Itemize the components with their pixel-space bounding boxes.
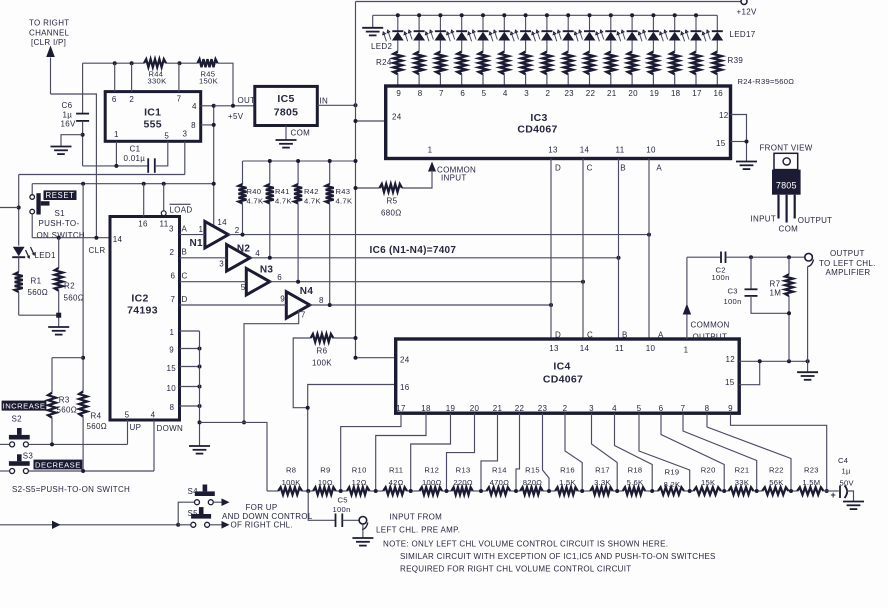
wire ladder seg before R20	[684, 490, 694, 492]
svg-text:7: 7	[681, 404, 686, 413]
wire ladder seg before R22	[754, 490, 763, 492]
resistor R5	[380, 184, 403, 192]
junction	[57, 236, 61, 240]
wire IC2 pin4 stub	[153, 420, 155, 471]
resistor R6	[311, 334, 334, 342]
wire IC2 pin10 stub	[180, 386, 200, 388]
resistor R43	[326, 184, 334, 204]
svg-text:CD4067: CD4067	[517, 124, 557, 136]
wire R3 bottom	[51, 418, 53, 445]
svg-text:19: 19	[446, 404, 456, 413]
junction	[438, 13, 442, 17]
wire IC2 pin8 stub	[180, 405, 200, 407]
junction	[502, 13, 506, 17]
wire IC4 pin5 route	[639, 413, 690, 491]
junction	[688, 489, 692, 493]
wire +12V rail	[356, 1, 741, 3]
LED LED7	[503, 15, 505, 31]
wire osc between R44 R45	[166, 62, 198, 64]
svg-text:IN: IN	[320, 97, 329, 106]
svg-text:N2: N2	[237, 243, 251, 254]
svg-text:SIMILAR CIRCUIT WITH EXCEPTION: SIMILAR CIRCUIT WITH EXCEPTION OF IC1,IC…	[400, 552, 716, 561]
wire S1 bottom riser	[31, 214, 33, 238]
wire pin6 stub	[114, 63, 116, 91]
svg-text:A: A	[656, 163, 662, 172]
svg-text:B: B	[622, 331, 628, 340]
junction	[481, 13, 485, 17]
resistor R36	[649, 52, 658, 75]
svg-text:N4: N4	[300, 286, 314, 297]
svg-text:R7: R7	[770, 280, 781, 289]
svg-text:LEFT CHL. PRE AMP.: LEFT CHL. PRE AMP.	[376, 525, 460, 534]
svg-text:R43: R43	[336, 187, 351, 196]
resistor R39	[713, 52, 722, 75]
wire net D	[180, 304, 287, 306]
LED LED8	[525, 15, 527, 31]
svg-text:ON SWITCH: ON SWITCH	[37, 231, 85, 240]
svg-text:6: 6	[659, 404, 664, 413]
svg-text:OUT: OUT	[238, 96, 256, 105]
svg-text:S1: S1	[55, 209, 66, 218]
svg-text:100n: 100n	[712, 273, 730, 282]
svg-text:R3: R3	[59, 396, 70, 405]
svg-text:20: 20	[470, 404, 480, 413]
svg-text:1: 1	[684, 345, 689, 354]
wire bottom rail	[0, 524, 178, 526]
svg-text:INCREASE: INCREASE	[3, 401, 46, 410]
LED LED4	[439, 15, 441, 31]
svg-text:D: D	[555, 163, 561, 172]
svg-text:S2-S5=PUSH-TO-ON SWITCH: S2-S5=PUSH-TO-ON SWITCH	[12, 485, 130, 494]
svg-text:+12V: +12V	[737, 7, 757, 16]
wire R4 bottom	[82, 417, 84, 472]
svg-text:470Ω: 470Ω	[490, 478, 510, 487]
svg-text:11: 11	[160, 219, 169, 228]
wire IC4 pin8 route	[707, 413, 791, 491]
svg-text:18: 18	[421, 404, 431, 413]
svg-text:33K: 33K	[735, 478, 749, 487]
wire N1 out	[228, 234, 649, 236]
wire to CLR riser	[51, 94, 97, 238]
svg-text:C: C	[587, 163, 593, 172]
wire R3 top	[51, 358, 53, 393]
IC3 CD4067 box	[386, 86, 731, 159]
wire LED1 cathode	[18, 257, 20, 272]
svg-text:23: 23	[538, 404, 548, 413]
junction	[81, 356, 85, 360]
LED LED9	[546, 15, 548, 31]
wire N4 out	[310, 304, 551, 306]
junction	[328, 303, 332, 307]
wire C6 bottom	[82, 121, 84, 166]
svg-text:A: A	[658, 331, 664, 340]
resistor R33	[585, 52, 594, 75]
svg-text:15: 15	[725, 378, 735, 387]
junction	[212, 182, 216, 186]
svg-text:14: 14	[113, 235, 123, 244]
capacitor C4	[839, 486, 841, 499]
junction	[94, 236, 98, 240]
wire IC2 pin16 riser	[143, 184, 145, 217]
junction	[198, 347, 202, 351]
junction	[339, 489, 343, 493]
svg-text:LED1: LED1	[35, 251, 56, 260]
wire R36 to IC3	[652, 74, 654, 86]
svg-text:7805: 7805	[274, 107, 299, 119]
svg-text:R2: R2	[64, 282, 75, 291]
svg-text:22: 22	[586, 89, 596, 98]
svg-text:R13: R13	[456, 465, 471, 474]
wire common output lower	[686, 315, 688, 340]
svg-text:R23: R23	[804, 465, 819, 474]
svg-text:9: 9	[280, 295, 285, 304]
wire R25 to IC3	[418, 74, 420, 86]
junction	[417, 13, 421, 17]
junction	[354, 336, 358, 340]
svg-text:IC4: IC4	[553, 361, 570, 373]
svg-text:LED17: LED17	[730, 30, 756, 39]
junction	[306, 489, 310, 493]
svg-text:14: 14	[217, 218, 227, 227]
svg-text:7: 7	[171, 295, 176, 304]
svg-text:R10: R10	[352, 465, 367, 474]
svg-text:FOR UP: FOR UP	[246, 503, 278, 512]
svg-text:+5V: +5V	[228, 112, 244, 121]
svg-text:B: B	[620, 163, 626, 172]
wire C3 riser	[750, 257, 752, 289]
wire IC4 pin20 route	[447, 413, 475, 491]
resistor R17	[590, 487, 613, 494]
wire net C	[180, 281, 247, 283]
svg-text:150K: 150K	[199, 77, 218, 86]
wire R28 to IC3	[482, 74, 484, 86]
svg-text:1M: 1M	[770, 289, 782, 298]
svg-text:CD4067: CD4067	[543, 374, 583, 386]
junction	[242, 420, 246, 424]
wire common output upper	[686, 257, 688, 304]
svg-text:AND DOWN CONTROL: AND DOWN CONTROL	[222, 512, 313, 521]
junction	[615, 489, 619, 493]
resistor R30	[521, 52, 530, 75]
junction	[581, 280, 585, 284]
wire ladder seg before R17	[578, 490, 591, 492]
svg-text:FRONT VIEW: FRONT VIEW	[760, 143, 813, 152]
svg-text:1: 1	[170, 328, 175, 337]
LED LED15	[674, 15, 676, 31]
svg-text:IC6 (N1-N4)=7407: IC6 (N1-N4)=7407	[370, 245, 457, 256]
svg-text:6: 6	[112, 95, 117, 104]
svg-text:555: 555	[143, 119, 161, 131]
terminal +12V	[741, 0, 747, 5]
wire R3 tee	[52, 357, 83, 359]
wire to ground G1	[61, 135, 83, 147]
wire IC3 pin24	[356, 120, 386, 122]
junction	[178, 61, 182, 65]
junction	[296, 280, 300, 284]
label box INCREASE	[2, 401, 47, 411]
junction	[81, 133, 85, 137]
svg-text:INPUT FROM: INPUT FROM	[390, 512, 443, 521]
junction	[787, 359, 791, 363]
svg-text:9: 9	[728, 404, 733, 413]
junction	[755, 489, 759, 493]
svg-text:R40: R40	[247, 187, 262, 196]
buffer N2	[227, 245, 251, 272]
svg-text:R18: R18	[628, 465, 643, 474]
junction	[354, 103, 358, 107]
svg-text:3.3K: 3.3K	[594, 478, 611, 487]
wire ladder seg before R9	[302, 490, 313, 492]
wire R35 to IC3	[631, 74, 633, 86]
wire IC3 pin12 stub	[731, 115, 747, 162]
wire IC2 pin9 stub	[180, 348, 200, 350]
label box DECREASE	[34, 460, 83, 470]
svg-text:IC3: IC3	[530, 112, 547, 124]
svg-text:100n: 100n	[724, 297, 742, 306]
svg-text:12: 12	[726, 355, 736, 364]
svg-text:5: 5	[125, 411, 130, 420]
wire address line B	[618, 159, 620, 340]
svg-text:5: 5	[164, 132, 169, 141]
junction	[176, 523, 180, 527]
inverter bubble LOAD	[161, 211, 166, 216]
wire R31 to IC3	[546, 74, 548, 86]
wire R26 to IC3	[439, 74, 441, 86]
wire gnd rail to R8	[200, 422, 268, 491]
wire VCC riser to N1 pin14	[213, 106, 215, 227]
svg-text:14: 14	[580, 145, 590, 154]
svg-text:22: 22	[515, 404, 525, 413]
ground G2	[276, 139, 297, 141]
wire arrow shaft	[50, 58, 52, 95]
junction	[268, 256, 272, 260]
wire IC4 pin7 route	[683, 413, 757, 491]
svg-text:R19: R19	[665, 467, 680, 476]
arrow S5 out	[222, 521, 230, 529]
svg-text:IC1: IC1	[144, 107, 161, 119]
svg-text:820Ω: 820Ω	[523, 478, 543, 487]
svg-text:IC5: IC5	[277, 93, 294, 105]
svg-text:100Ω: 100Ω	[422, 478, 442, 487]
svg-text:2: 2	[235, 226, 240, 235]
junction	[566, 13, 570, 17]
svg-text:1: 1	[199, 225, 204, 234]
wire R29 to IC3	[503, 74, 505, 86]
wire R43 bottom	[329, 204, 331, 306]
svg-text:2: 2	[546, 89, 551, 98]
junction	[651, 13, 655, 17]
svg-text:3: 3	[219, 259, 224, 268]
svg-text:R12: R12	[424, 465, 439, 474]
svg-text:S2: S2	[12, 414, 23, 423]
wire pin7 stub	[178, 63, 180, 91]
svg-text:C5: C5	[338, 496, 348, 505]
svg-text:COMMON: COMMON	[691, 320, 730, 329]
svg-text:R22: R22	[769, 465, 784, 474]
svg-text:D: D	[555, 331, 561, 340]
svg-text:AMPLIFIER: AMPLIFIER	[826, 268, 871, 277]
junction	[113, 61, 117, 65]
wire output net left	[687, 256, 721, 258]
wire S3 row	[29, 470, 154, 472]
svg-text:8: 8	[705, 404, 710, 413]
wire LED rail	[373, 14, 718, 16]
svg-text:S3: S3	[23, 452, 34, 461]
resistor R19	[658, 487, 684, 494]
junction	[328, 159, 332, 163]
junction	[647, 233, 651, 237]
svg-text:R1: R1	[31, 277, 42, 286]
wire IC2 pin1 stub	[180, 330, 200, 332]
wire net A	[180, 234, 205, 236]
wire gnd rail R1 R2	[19, 315, 59, 327]
resistor R23	[797, 487, 823, 494]
switch S2	[9, 435, 30, 440]
svg-text:10: 10	[646, 344, 656, 353]
svg-text:IC2: IC2	[131, 293, 148, 305]
wire to S4 row	[178, 502, 194, 525]
svg-text:D: D	[182, 295, 188, 304]
wire R30 to IC3	[525, 74, 527, 86]
svg-text:24: 24	[392, 113, 402, 122]
wire IC4 pin24	[356, 357, 396, 359]
svg-text:RESET: RESET	[46, 191, 75, 200]
svg-text:15K: 15K	[701, 478, 715, 487]
svg-text:TO LEFT CHL.: TO LEFT CHL.	[819, 259, 876, 268]
arrow to right channel (CLR I/P)	[46, 46, 55, 58]
wire R42 bottom	[297, 204, 299, 282]
wire ladder seg before R19	[645, 490, 658, 492]
wire net B	[180, 257, 227, 259]
resistor R9	[313, 487, 336, 494]
svg-text:560Ω: 560Ω	[57, 406, 78, 415]
svg-text:4.7K: 4.7K	[275, 196, 292, 205]
wire pin4 stub	[201, 105, 214, 107]
junction	[806, 359, 810, 363]
resistor R1	[15, 272, 23, 292]
junction	[81, 469, 85, 473]
junction	[162, 182, 166, 186]
wire IC4 pin18 route	[376, 413, 426, 491]
buffer N4	[286, 292, 310, 319]
wire IC4 pin16 net	[308, 385, 396, 492]
junction	[268, 159, 272, 163]
resistor R29	[500, 52, 509, 75]
svg-text:C1: C1	[130, 145, 141, 154]
svg-text:R8: R8	[286, 465, 296, 474]
wire rail ground stem	[372, 15, 374, 27]
wire IC4 pin17 route	[341, 413, 401, 491]
svg-text:12Ω: 12Ω	[352, 478, 367, 487]
junction	[198, 365, 202, 369]
svg-text:C: C	[182, 272, 188, 281]
ground G6	[48, 326, 69, 328]
resistor R20	[694, 487, 722, 494]
capacitor C6	[76, 113, 89, 115]
junction	[825, 489, 829, 493]
svg-text:5: 5	[637, 404, 642, 413]
svg-text:OUTPUT: OUTPUT	[798, 216, 833, 225]
svg-text:4: 4	[612, 404, 617, 413]
wire IC4 pin15 stub	[739, 361, 760, 384]
wire IC5 IN	[317, 104, 355, 106]
junction square	[56, 313, 61, 318]
svg-text:[CLR I/P]: [CLR I/P]	[31, 38, 66, 47]
svg-text:2: 2	[129, 95, 134, 104]
svg-text:21: 21	[607, 89, 617, 98]
svg-text:4: 4	[255, 249, 260, 258]
wire R41 bottom	[269, 204, 271, 258]
IC5 7805 box	[255, 86, 317, 125]
wire IC2 right bus	[199, 331, 201, 446]
svg-text:3: 3	[169, 225, 174, 234]
ground G1	[51, 146, 72, 148]
svg-text:DECREASE: DECREASE	[35, 460, 81, 469]
svg-text:24: 24	[400, 355, 410, 364]
op-amp U IC1 555 box	[105, 92, 201, 142]
wire IC4 pin6 route	[661, 413, 724, 491]
resistor R35	[628, 52, 637, 75]
resistor R13	[452, 487, 473, 494]
svg-text:OUTPUT: OUTPUT	[693, 332, 728, 341]
svg-text:19: 19	[650, 89, 660, 98]
switch S1	[36, 193, 40, 214]
junction	[745, 140, 749, 144]
capacitor C2	[720, 252, 722, 264]
junction	[787, 255, 791, 259]
LED LED1	[13, 247, 25, 257]
resistor R26	[436, 52, 445, 75]
wire ladder seg before R11	[370, 490, 384, 492]
wire IC4 pin22 route	[516, 413, 520, 491]
junction	[549, 303, 553, 307]
svg-text:17: 17	[692, 89, 702, 98]
svg-text:A: A	[182, 224, 188, 233]
junction	[130, 61, 134, 65]
junction	[445, 489, 449, 493]
svg-text:3: 3	[183, 130, 188, 139]
resistor R24	[394, 52, 403, 75]
svg-text:12: 12	[719, 111, 729, 120]
svg-text:6: 6	[460, 89, 465, 98]
resistor R45	[198, 59, 218, 67]
svg-text:R17: R17	[595, 465, 610, 474]
wire S5 out	[210, 524, 222, 526]
buffer N1	[205, 221, 229, 248]
resistor R38	[692, 52, 701, 75]
wire IC2 pin5 stub	[127, 420, 129, 444]
junction	[409, 489, 413, 493]
svg-text:N1: N1	[190, 238, 204, 249]
svg-text:R41: R41	[275, 187, 290, 196]
junction	[396, 13, 400, 17]
junction	[354, 186, 358, 190]
IC2 74193 box	[110, 217, 180, 421]
svg-text:7: 7	[177, 94, 182, 103]
wire address line C	[582, 159, 584, 340]
svg-text:R6: R6	[317, 347, 328, 356]
wire +12V vertical	[355, 2, 357, 358]
resistor R40	[239, 184, 247, 204]
svg-text:R15: R15	[525, 465, 540, 474]
svg-text:10: 10	[167, 384, 177, 393]
wire left edge stub	[0, 207, 19, 209]
terminal input jack	[359, 517, 367, 525]
wire pin1 net	[83, 165, 149, 167]
arrow common output	[683, 304, 691, 315]
resistor R3	[48, 393, 56, 418]
svg-text:7: 7	[439, 89, 444, 98]
